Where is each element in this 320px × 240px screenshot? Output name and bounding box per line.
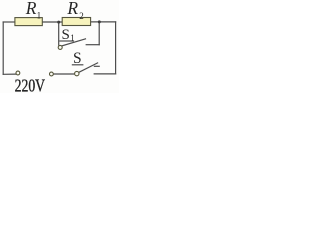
svg-text:S: S	[62, 27, 70, 43]
svg-text:R: R	[66, 0, 78, 18]
svg-text:R: R	[25, 0, 37, 18]
svg-text:S: S	[73, 50, 82, 67]
svg-text:1: 1	[37, 10, 42, 20]
svg-text:1: 1	[70, 33, 75, 43]
svg-text:2: 2	[79, 11, 84, 21]
svg-text:220V: 220V	[15, 75, 46, 93]
